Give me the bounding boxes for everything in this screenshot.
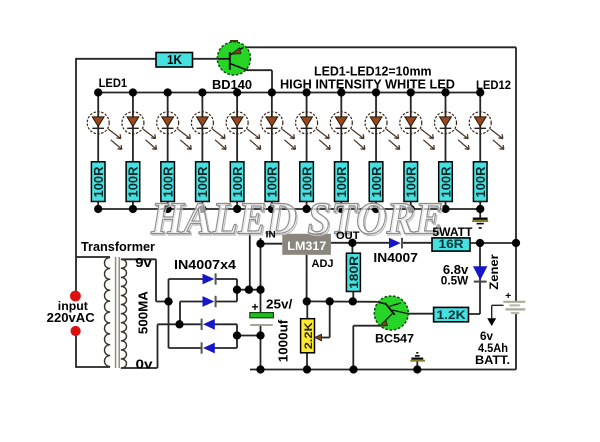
svg-text:+: + [251,300,258,314]
svg-text:2.2K: 2.2K [303,322,315,349]
svg-text:LED12: LED12 [476,78,511,92]
svg-text:100R: 100R [91,166,106,198]
svg-text:0v: 0v [136,357,154,372]
svg-text:Zener: Zener [489,254,501,290]
svg-text:HIGH INTENSITY WHITE LED: HIGH INTENSITY WHITE LED [280,78,455,92]
svg-text:1K: 1K [167,53,182,67]
svg-text:IN: IN [266,229,276,239]
svg-text:25v/: 25v/ [266,298,293,312]
svg-text:BD140: BD140 [212,78,252,92]
svg-text:IN4007x4: IN4007x4 [174,258,236,272]
svg-text:180R: 180R [349,255,361,289]
svg-text:Transformer: Transformer [81,240,155,254]
svg-text:HALED STORE: HALED STORE [150,193,443,244]
svg-text:100R: 100R [473,166,488,198]
svg-text:+: + [505,290,511,302]
svg-text:ADJ: ADJ [312,258,334,270]
svg-text:IN4007: IN4007 [373,251,418,265]
svg-text:5WATT: 5WATT [432,225,473,239]
svg-text:1.2K: 1.2K [437,308,466,322]
svg-text:LED1: LED1 [99,78,128,90]
svg-text:LED1-LED12=10mm: LED1-LED12=10mm [314,65,432,79]
svg-text:500MA: 500MA [136,290,151,334]
svg-text:BC547: BC547 [375,332,414,346]
svg-text:9v: 9v [135,255,152,270]
svg-text:220vAC: 220vAC [47,311,95,325]
svg-text:1000uf: 1000uf [276,319,291,362]
svg-text:6v: 6v [480,331,494,343]
svg-text:100R: 100R [126,166,141,198]
svg-text:OUT: OUT [336,230,360,242]
svg-text:BATT.: BATT. [475,353,510,367]
svg-text:0.5W: 0.5W [441,274,469,288]
